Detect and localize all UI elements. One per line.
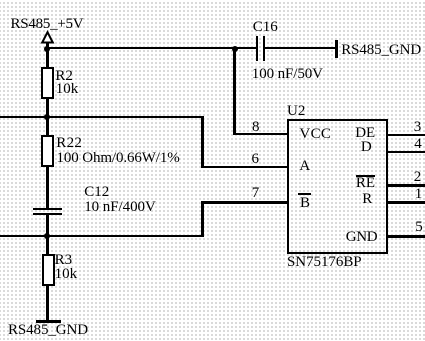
net label RS485_GND (bottom) [8, 323, 88, 338]
power bar RS485_GND (top right) [335, 40, 338, 58]
wire pin 8 drop vertical [233, 48, 235, 135]
pin name DE [355, 126, 375, 141]
pin name R [362, 192, 372, 207]
wire pin 6 horizontal [201, 166, 287, 169]
wire pin 1 [388, 201, 425, 204]
pin number 3 [414, 120, 422, 135]
wire C12 bottom to R3 top [46, 215, 48, 254]
ground bar RS485_GND (bottom) [36, 320, 61, 323]
IC U2 box [287, 119, 388, 254]
label R2 [55, 69, 73, 84]
pin name VCC [299, 127, 331, 142]
wire net A bend vertical [201, 116, 203, 168]
wire pin 4 [388, 151, 425, 154]
wire pin 3 [388, 134, 425, 137]
wire net A horizontal (left edge to bend) [0, 116, 204, 118]
pin number 7 [252, 186, 260, 201]
net label RS485_+5V [11, 17, 84, 32]
capacitor C16 right plate [263, 36, 265, 61]
value label 100 Ohm/0.66W/1% [57, 151, 180, 166]
pin number 8 [252, 120, 260, 135]
label C16 [253, 20, 278, 35]
wire pin 8 horizontal [233, 133, 287, 136]
pin number 2 [414, 170, 422, 185]
value label 100 nF/50V [252, 67, 323, 82]
wire R22 bottom to C12 top [46, 167, 48, 209]
capacitor C12 top plate [33, 208, 62, 210]
pin number 6 [252, 152, 260, 167]
capacitor C16 left plate [256, 36, 258, 61]
wire R2 bottom to R22 top [46, 98, 48, 135]
pin name A [299, 159, 310, 174]
refdes U2 [287, 104, 305, 119]
wire pin 7 horizontal [201, 201, 287, 204]
pin name RE [356, 176, 375, 191]
power flag RS485_+5V (triangle symbol) [40, 30, 56, 45]
pin name D [361, 140, 372, 155]
label C12 [84, 185, 109, 200]
wire top rail left segment (junction to C16) [46, 47, 257, 49]
node junction R2/R22 [44, 114, 50, 120]
wire net B bend vertical [201, 201, 203, 237]
value label 10k (R3) [55, 267, 78, 282]
wire R3 bottom to ground bar [46, 286, 48, 320]
resistor R2 [41, 67, 54, 99]
part label SN75176BP [287, 255, 362, 270]
wire C16 to GND bar [265, 47, 337, 49]
wire triangle base to R2 top [46, 43, 48, 68]
node junction C12/R3 [44, 233, 50, 239]
wire net B horizontal (left edge to bend) [0, 235, 204, 237]
net label RS485_GND (top right) [341, 43, 421, 58]
pin number 1 [415, 187, 423, 202]
wire pin 2 [388, 184, 425, 187]
label R22 [56, 136, 82, 151]
pin name B [300, 196, 310, 211]
label R3 [55, 253, 73, 268]
pin number 5 [415, 220, 423, 235]
wire pin 5 [388, 235, 425, 238]
pin name GND [346, 230, 378, 245]
pin number 4 [414, 137, 422, 152]
overline of B [298, 193, 310, 195]
capacitor C12 bottom plate [33, 213, 62, 215]
value label 10 nF/400V [84, 200, 156, 215]
overline of RE [356, 175, 375, 177]
value label 10k (R2) [56, 82, 79, 97]
node junction at +5V rail [44, 46, 50, 52]
resistor R22 [41, 135, 54, 168]
node junction above pin 8 drop [232, 46, 238, 52]
resistor R3 [42, 254, 55, 286]
